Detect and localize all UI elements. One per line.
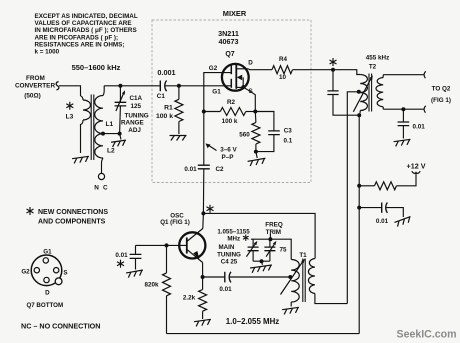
svg-text:455 kHz: 455 kHz bbox=[366, 54, 389, 61]
svg-text:0.01: 0.01 bbox=[184, 166, 197, 173]
svg-text:P–P: P–P bbox=[222, 154, 234, 161]
capacitor C1 0.001 bbox=[157, 68, 176, 100]
svg-text:S: S bbox=[63, 269, 67, 276]
svg-text:C4 25: C4 25 bbox=[221, 258, 238, 265]
capacitor 75 freq trim (variable) bbox=[264, 239, 287, 261]
capacitor C4 25 main tuning (variable) bbox=[246, 239, 258, 261]
wire star node to T2 primary top bbox=[333, 70, 360, 75]
terminal +12V bbox=[412, 171, 420, 173]
svg-text:R2: R2 bbox=[227, 99, 236, 106]
svg-text:k = 1000: k = 1000 bbox=[35, 49, 60, 56]
svg-text:820k: 820k bbox=[144, 282, 159, 289]
svg-text:AND COMPONENTS: AND COMPONENTS bbox=[38, 219, 106, 226]
svg-text:0.01: 0.01 bbox=[413, 124, 426, 131]
svg-text:CONVERTER: CONVERTER bbox=[15, 83, 56, 90]
wire G2 lead bbox=[204, 73, 232, 112]
svg-text:0.001: 0.001 bbox=[157, 68, 175, 77]
ground at L1 tap bbox=[120, 134, 121, 140]
wire collector line to T1 secondary bbox=[203, 213, 315, 258]
svg-text:0.01: 0.01 bbox=[115, 252, 128, 259]
svg-text:TRIM: TRIM bbox=[266, 229, 281, 236]
svg-text:0.01: 0.01 bbox=[376, 218, 389, 225]
resistor 820k bbox=[144, 245, 170, 333]
svg-text:1.0–2.055 MHz: 1.0–2.055 MHz bbox=[226, 317, 280, 326]
junction input line / C1A bbox=[118, 84, 122, 88]
terminal FROM CONVERTER bbox=[15, 75, 59, 100]
wire stub star node to trimmer rail bbox=[269, 234, 271, 239]
diagram Q7 bottom view bbox=[21, 248, 67, 308]
capacitor across T2 primary bbox=[327, 70, 359, 116]
svg-text:ARE IN PICOFARADS ( pF );: ARE IN PICOFARADS ( pF ); bbox=[35, 34, 119, 41]
svg-text:G1: G1 bbox=[212, 89, 221, 96]
svg-text:3–6 V: 3–6 V bbox=[220, 147, 237, 154]
ground below T1 primary bbox=[282, 307, 300, 314]
svg-text:RESISTANCES ARE IN OHMS;: RESISTANCES ARE IN OHMS; bbox=[35, 41, 125, 48]
bus B: T2 primary bottom down to bottom wire bbox=[358, 115, 360, 333]
wire source to R2 junction bbox=[243, 87, 255, 111]
inductor T1 secondary bbox=[308, 259, 347, 304]
junction +12V feed bbox=[357, 184, 361, 188]
svg-text:+12 V: +12 V bbox=[407, 161, 426, 170]
svg-text:100 k: 100 k bbox=[222, 118, 238, 125]
svg-text:N C: N C bbox=[94, 185, 109, 192]
svg-text:R1: R1 bbox=[164, 105, 173, 112]
svg-text:RANGE: RANGE bbox=[121, 120, 144, 127]
svg-text:FROM: FROM bbox=[26, 75, 45, 82]
svg-text:NC – NO CONNECTION: NC – NO CONNECTION bbox=[21, 322, 100, 331]
junction trimmer rail bbox=[268, 237, 272, 241]
svg-text:ADJ: ADJ bbox=[128, 127, 141, 134]
ground below tuning caps bbox=[262, 261, 263, 265]
ground below output bypass bbox=[394, 139, 412, 146]
wire trimmer top rail bbox=[251, 239, 291, 259]
svg-text:TUNING: TUNING bbox=[125, 112, 149, 119]
junction base node bbox=[165, 243, 169, 247]
resistor +12V feed bbox=[359, 174, 416, 190]
svg-text:T2: T2 bbox=[369, 63, 377, 70]
svg-text:MHz: MHz bbox=[227, 236, 240, 243]
mixer dashed enclosure box bbox=[152, 20, 311, 183]
ground below R1 bbox=[170, 136, 187, 141]
svg-text:VALUES OF CAPACITANCE ARE: VALUES OF CAPACITANCE ARE bbox=[35, 20, 132, 27]
svg-text:G2: G2 bbox=[21, 269, 30, 276]
junction trimmer bottom bbox=[260, 259, 264, 263]
junction T2 primary bottom bbox=[357, 113, 361, 117]
svg-text:L3: L3 bbox=[66, 113, 74, 120]
ground below 560 bbox=[256, 152, 257, 158]
inductor L3 (primary winding) bbox=[81, 96, 91, 153]
capacitor 0.01 output bypass bbox=[398, 109, 426, 138]
svg-text:R4: R4 bbox=[279, 56, 288, 63]
svg-text:Q7 BOTTOM: Q7 BOTTOM bbox=[26, 302, 63, 309]
wire emitter down bbox=[202, 263, 204, 278]
capacitor 0.01 at base bbox=[115, 245, 141, 269]
junction T2 tap bbox=[357, 90, 361, 94]
junction R2 right / source bbox=[253, 110, 257, 114]
svg-text:100 k: 100 k bbox=[156, 113, 173, 120]
wire T1 secondary bottom up to T2 tap (bus A) bbox=[347, 92, 359, 304]
svg-text:EXCEPT AS INDICATED, DECIMAL: EXCEPT AS INDICATED, DECIMAL bbox=[35, 13, 138, 20]
svg-text:0.01: 0.01 bbox=[219, 286, 232, 293]
svg-text:D: D bbox=[45, 290, 50, 297]
capacitor 0.01 emitter coupling bbox=[203, 272, 291, 293]
junction T1 primary tap bbox=[288, 275, 292, 279]
junction emitter node bbox=[201, 275, 205, 279]
svg-text:550–1600 kHz: 550–1600 kHz bbox=[72, 63, 121, 72]
svg-text:L2: L2 bbox=[107, 148, 115, 155]
inductor L1 (upper secondary) bbox=[95, 86, 104, 134]
svg-text:L1: L1 bbox=[106, 121, 114, 128]
wire C1 to G1 bbox=[165, 85, 231, 87]
resistor 560 bbox=[239, 112, 260, 152]
transformer T1 core bbox=[303, 259, 305, 303]
svg-text:SeekIC.com: SeekIC.com bbox=[397, 328, 457, 340]
labels 1.055-1155 MHz MAIN TUNING C4 25 bbox=[217, 228, 250, 265]
junction C1A bottom bbox=[118, 132, 122, 136]
wire base to bypass cap bbox=[136, 244, 167, 246]
capacitor C3 0.1 bbox=[255, 112, 292, 152]
wire L1 tap to C1A bottom bbox=[103, 133, 120, 135]
wire collector to star node bbox=[202, 213, 205, 228]
svg-text:560: 560 bbox=[239, 131, 250, 138]
capacitor C2 0.01 bbox=[184, 112, 224, 214]
wire L1 top to C1 bbox=[104, 85, 160, 87]
svg-text:G2: G2 bbox=[209, 65, 218, 72]
wire T2 secondary bottom to output bbox=[383, 108, 424, 110]
junction G2/R2 left bbox=[202, 110, 206, 114]
ground below supply bypass bbox=[395, 217, 413, 228]
transistor Q7 dual-gate MOSFET bbox=[222, 64, 249, 91]
junction output bypass bbox=[401, 107, 405, 111]
ground below 2.2k bbox=[194, 319, 212, 326]
junction bypass 0.01 bbox=[357, 206, 361, 210]
svg-text:1.055–1155: 1.055–1155 bbox=[217, 228, 250, 235]
terminal tick output top bbox=[424, 71, 426, 78]
labels C1A 125 TUNING RANGE ADJ bbox=[121, 95, 149, 134]
svg-text:TO Q2: TO Q2 bbox=[432, 85, 451, 92]
annotation 3-6 V P-P arrow bbox=[206, 143, 238, 161]
inductor T2 secondary bbox=[376, 75, 383, 110]
terminal NC circle bbox=[98, 173, 104, 179]
capacitor C1A variable 125 bbox=[115, 86, 127, 134]
resistor 2.2k bbox=[183, 277, 207, 319]
svg-text:2.2k: 2.2k bbox=[183, 295, 196, 302]
svg-text:40673: 40673 bbox=[219, 37, 239, 46]
svg-text:C1A: C1A bbox=[130, 95, 143, 102]
note: NEW CONNECTIONS AND COMPONENTS bbox=[27, 207, 109, 226]
svg-text:G1: G1 bbox=[43, 248, 52, 255]
svg-text:75: 75 bbox=[279, 246, 287, 253]
svg-text:NEW CONNECTIONS: NEW CONNECTIONS bbox=[38, 209, 108, 216]
svg-text:MAIN: MAIN bbox=[218, 244, 234, 251]
note: units legend bbox=[35, 13, 138, 56]
node star at T2 input bbox=[331, 68, 335, 72]
junction 560 bottom bbox=[254, 150, 258, 154]
slug arrow through T2 primary bbox=[353, 79, 371, 112]
svg-text:Q1 (FIG 1): Q1 (FIG 1) bbox=[160, 219, 190, 226]
svg-text:T1: T1 bbox=[299, 252, 307, 259]
svg-text:C2: C2 bbox=[216, 166, 225, 173]
svg-text:C3: C3 bbox=[284, 127, 293, 134]
label L3 with star bbox=[66, 102, 73, 110]
svg-text:IN MICROFARADS ( μF ); OTHERS: IN MICROFARADS ( μF ); OTHERS bbox=[35, 27, 137, 34]
inductor L2 (lower secondary) bbox=[95, 134, 103, 174]
junction R1 top bbox=[177, 84, 181, 88]
wire R4 to star node bbox=[293, 69, 334, 71]
terminal tick output bottom bbox=[424, 106, 426, 113]
wire trimmer bottom rail bbox=[253, 260, 270, 262]
svg-text:MIXER: MIXER bbox=[223, 9, 247, 18]
ground below base cap bbox=[126, 270, 144, 278]
resistor R1 100k bbox=[156, 86, 183, 134]
svg-text:(50Ω): (50Ω) bbox=[24, 93, 41, 100]
slug arrow through T1 primary bbox=[281, 262, 303, 294]
svg-text:0.1: 0.1 bbox=[284, 137, 293, 144]
wire converter to L3 top bbox=[59, 86, 81, 96]
resistor R4 10 bbox=[272, 56, 293, 81]
node star at oscillator collector bbox=[201, 211, 205, 215]
svg-text:TUNING: TUNING bbox=[217, 251, 241, 258]
transistor Q1 NPN bbox=[167, 229, 206, 263]
resistor R2 100k bbox=[204, 99, 256, 125]
wire drain to R4 bbox=[248, 68, 272, 71]
svg-text:125: 125 bbox=[131, 103, 142, 110]
svg-text:FREQ: FREQ bbox=[265, 221, 283, 228]
inductor T1 primary bbox=[291, 260, 299, 307]
capacitor 0.01 supply bypass bbox=[359, 203, 403, 226]
inductor T2 primary bbox=[359, 75, 367, 116]
svg-text:(FIG 1): (FIG 1) bbox=[431, 97, 451, 104]
transformer core L3/L1 bbox=[91, 95, 94, 161]
svg-text:Q7: Q7 bbox=[225, 51, 234, 58]
wire bottom feedback bus bbox=[167, 333, 360, 335]
ground below L3 bbox=[72, 156, 90, 163]
transformer T2 core bbox=[369, 74, 372, 112]
wire T2 secondary top to output bbox=[383, 74, 424, 76]
svg-text:C1: C1 bbox=[157, 93, 166, 100]
junction L1 tap bbox=[101, 132, 105, 136]
svg-text:D: D bbox=[248, 59, 253, 66]
svg-text:10: 10 bbox=[279, 74, 287, 81]
